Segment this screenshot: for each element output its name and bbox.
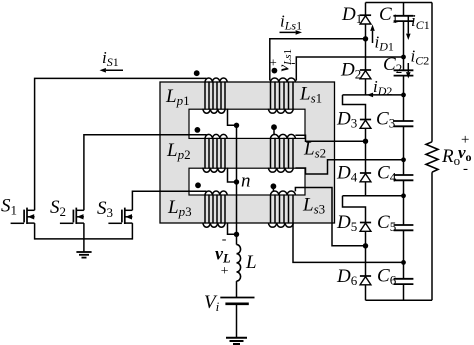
- wire D6 anode to rail: [365, 285, 367, 301]
- wire to D3 cathode: [343, 95, 366, 120]
- current arrow iD2: [367, 93, 373, 98]
- switch S3: [108, 208, 132, 240]
- wire S3 drain to Lp3: [132, 191, 206, 210]
- wire D5 anode to D6: [365, 231, 367, 276]
- junction C1-C2: [401, 55, 406, 60]
- wire D1 anode to D2: [365, 24, 367, 70]
- junction C2-C3: [401, 93, 406, 98]
- current arrow iC2: [406, 63, 411, 79]
- diode D5: [360, 223, 371, 232]
- capacitor C5: [394, 225, 414, 230]
- wire C1 to C2: [403, 21, 405, 70]
- current arrow iLs1: [280, 30, 303, 35]
- junction D3-D4 node: [363, 139, 368, 144]
- current arrow iS1: [100, 68, 124, 73]
- polarity dot Ls3: [271, 183, 277, 189]
- stub Ls2 dot: [273, 130, 275, 135]
- wire top rail: [366, 2, 433, 4]
- polarity dot Lp2: [195, 127, 201, 133]
- transformer core (shaded): [160, 82, 335, 223]
- diode D2: [360, 70, 371, 79]
- capacitor C2: [394, 70, 414, 75]
- wire C2 to C3: [403, 76, 405, 121]
- polarity dot Lp3: [195, 182, 201, 188]
- junction Lp1-neutral: [234, 123, 239, 128]
- winding Lp2: [203, 134, 227, 172]
- core window 2: [189, 168, 305, 195]
- resistor Ro: [426, 142, 438, 172]
- wire neutral line: [236, 125, 238, 234]
- wire S2 drain to Lp2: [84, 135, 207, 211]
- capacitor C3: [394, 121, 414, 126]
- wire D2 anode: [365, 79, 367, 95]
- junction C5-C6: [401, 260, 406, 265]
- junction C4-C5: [401, 193, 406, 198]
- polarity dot Ls2: [271, 124, 277, 130]
- svg-text:L: L: [245, 252, 257, 273]
- polarity dot Lp1: [194, 70, 200, 76]
- wire right rail upper: [431, 3, 433, 142]
- wire D2 node: [343, 94, 404, 96]
- junction node n: [234, 179, 239, 184]
- wire to D5 cathode: [343, 196, 366, 223]
- winding Ls2: [268, 134, 295, 172]
- wire common source: [35, 238, 133, 240]
- capacitor C6: [394, 279, 414, 284]
- diode D1: [360, 15, 371, 24]
- inductor L: [237, 245, 241, 281]
- capacitor C4: [394, 175, 414, 180]
- wire Ls1 to C1C2 junction: [296, 57, 403, 81]
- svg-text:-: -: [463, 161, 468, 177]
- wire Ls1 dotted end to D1: [270, 39, 366, 81]
- diode D3: [360, 120, 371, 129]
- wire bottom rail: [366, 299, 433, 301]
- ground (source): [226, 338, 247, 344]
- winding Ls3: [268, 191, 295, 227]
- wire D4 node: [343, 195, 404, 197]
- wire C4 to C5: [403, 180, 405, 225]
- wire Ls2 bottom to C3C4 junction: [295, 160, 403, 174]
- wire Ls2 top to D3D4 junction: [295, 135, 365, 141]
- ground (switches): [76, 252, 91, 258]
- stub Ls3 dot: [272, 189, 274, 192]
- wire D1 cathode: [365, 3, 367, 16]
- switch S2: [60, 208, 84, 240]
- wire Lp3 exit: [228, 223, 237, 235]
- wire C5 to C6: [403, 230, 405, 278]
- switch S1: [11, 208, 35, 240]
- winding Lp1: [203, 78, 227, 113]
- core window 1: [189, 109, 305, 138]
- svg-text:n: n: [241, 171, 251, 192]
- diode D6: [360, 276, 371, 285]
- wire C6 to rail: [403, 284, 405, 300]
- winding Lp3: [203, 191, 227, 227]
- winding Ls1: [268, 78, 295, 113]
- wire Ls3 bottom to C5C6 junction: [293, 223, 404, 263]
- wire n to L: [236, 234, 238, 244]
- svg-text:+: +: [220, 264, 229, 279]
- wire Lp1 exit: [228, 109, 237, 126]
- current arrow iC1: [406, 17, 411, 41]
- junction D1-D2 node: [363, 36, 368, 41]
- wire C1 top: [403, 3, 405, 16]
- wire D4 anode: [365, 182, 367, 196]
- wire Ls3 top to D5D6 junction: [295, 188, 365, 246]
- junction Lp3-neutral: [234, 232, 239, 237]
- wire S1 drain to Lp1: [35, 78, 207, 210]
- polarity dot Ls1: [272, 68, 278, 74]
- wire right rail lower: [431, 172, 433, 300]
- wire Vi to ground: [236, 304, 238, 337]
- wire D3 anode to D4: [365, 128, 367, 173]
- svg-text:-: -: [291, 54, 295, 69]
- capacitor C1: [394, 16, 414, 21]
- wire L to Vi: [236, 281, 238, 297]
- junction C3-C4: [401, 157, 406, 162]
- junction D5-D6 node: [363, 243, 368, 248]
- battery Vi: [220, 298, 254, 304]
- wire Lp2 exit: [228, 168, 237, 182]
- wire C3 to C4: [403, 126, 405, 175]
- current arrow iD1: [370, 25, 375, 44]
- diode D4: [360, 173, 371, 182]
- wire to ground: [83, 239, 85, 252]
